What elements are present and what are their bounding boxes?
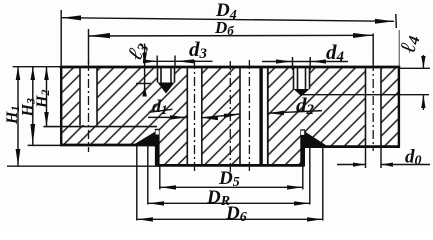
- D6 ext right: [322, 147, 324, 221]
- Db ext right: [372, 34, 374, 65]
- d2 right arrow: [268, 111, 284, 115]
- d1 label underline: [149, 109, 173, 112]
- d4 drill point: [294, 89, 310, 96]
- d2 keyway bar: [259, 67, 262, 166]
- d3 dim line: [145, 60, 213, 62]
- rim bottom right: [303, 145, 400, 148]
- bolt hole L centerline: [88, 62, 90, 152]
- l4 lower ref line: [303, 94, 429, 96]
- inner line H2 level: [44, 126, 158, 128]
- Db left arrow: [88, 33, 110, 38]
- d3 ticks: [156, 56, 158, 68]
- D5 ext right: [302, 166, 304, 190]
- D6 dim line: [137, 218, 323, 220]
- DR left arrow: [148, 201, 164, 205]
- d3 right arrow: [176, 59, 194, 63]
- l4 bottom up arrow: [421, 95, 425, 108]
- d1 dim line left part: [148, 116, 187, 118]
- D4 dim line: [61, 18, 394, 22]
- d0 left arrow: [353, 163, 365, 167]
- left chamfer triangle: [133, 131, 157, 146]
- bolt hole R centerline: [372, 62, 374, 151]
- d2 left arrow: [224, 114, 240, 118]
- DR right arrow: [294, 201, 310, 205]
- D4 ext left: [60, 10, 62, 66]
- H2 line: [46, 67, 48, 127]
- d1 centerline: [194, 60, 196, 172]
- D6 ext left: [136, 145, 138, 221]
- left edge: [60, 66, 62, 146]
- D4 ext right: [395, 14, 398, 28]
- DR ext right: [309, 147, 311, 205]
- l3 bottom up arrow: [142, 85, 147, 97]
- d2 centerline: [248, 60, 250, 172]
- bolt hole left edges: [79, 67, 81, 126]
- H3 up arrow: [31, 67, 36, 80]
- top edge: [60, 66, 400, 69]
- Db ext left: [88, 29, 90, 64]
- d2 dim line right part: [268, 111, 322, 114]
- boss bottom ext left: [7, 165, 160, 167]
- d4 slot edges: [293, 67, 295, 89]
- D4 right arrow: [375, 19, 394, 24]
- l3 top down arrow: [142, 53, 146, 67]
- d4 right arrow: [311, 59, 326, 63]
- H3 down arrow: [30, 124, 35, 145]
- right chamfer triangle: [304, 131, 328, 147]
- right notch: [301, 131, 304, 135]
- d3 slot edges: [157, 67, 159, 83]
- left notch: [156, 130, 159, 134]
- Db right arrow: [353, 33, 373, 38]
- H2 up arrow: [44, 67, 49, 80]
- rim bottom left: [60, 144, 157, 147]
- DR dim line: [148, 202, 310, 204]
- D5 ext left: [159, 166, 161, 190]
- Db dim line: [88, 34, 373, 37]
- d3 left arrow: [143, 59, 157, 63]
- l4 arrow stems: [422, 55, 424, 68]
- l4 top down arrow: [421, 56, 425, 68]
- H2 down arrow: [44, 112, 49, 126]
- d0 hole edges: [365, 67, 367, 147]
- top edge ext left: [13, 66, 60, 68]
- rim bottom ext left: [28, 144, 61, 146]
- d4 dim line: [262, 61, 348, 63]
- thin feature edges: [44, 67, 382, 166]
- H1 up arrow: [16, 67, 21, 80]
- d1-d2 middle dim line: [202, 114, 240, 118]
- body outline: [60, 66, 400, 165]
- d1 left arrow: [170, 115, 187, 119]
- d1 right arrow: [202, 116, 218, 120]
- D5 left arrow: [160, 185, 176, 189]
- right step bar: [300, 129, 305, 166]
- H3 line: [32, 67, 34, 145]
- part axis centerline: [229, 61, 231, 172]
- d4 ticks: [292, 57, 294, 70]
- H1 line: [17, 67, 19, 166]
- d4 left arrow: [276, 59, 292, 63]
- D4 left arrow: [62, 15, 82, 20]
- body hatched section: [61, 67, 399, 166]
- d3 drill point: [158, 83, 175, 94]
- boss bottom: [158, 164, 305, 167]
- centerlines dash-dot: [89, 60, 374, 172]
- l4 top ref ext (top edge ext right): [399, 67, 430, 69]
- l3 line: [144, 44, 146, 97]
- D5 right arrow: [287, 185, 303, 189]
- d1 bore edges: [186, 67, 188, 166]
- D6 right arrow: [307, 217, 323, 221]
- D6 left arrow: [137, 217, 153, 221]
- d0 right arrow: [381, 163, 393, 167]
- d0 ext lines: [365, 148, 367, 169]
- right edge: [398, 66, 400, 147]
- DR ext left: [147, 145, 149, 205]
- left step bar: [155, 129, 160, 166]
- l3 lower ref line: [136, 83, 151, 85]
- d0 dim lines: [337, 164, 366, 166]
- d2 bore edges: [239, 67, 241, 166]
- H1 down arrow: [16, 149, 21, 166]
- D5 dim line: [160, 186, 303, 188]
